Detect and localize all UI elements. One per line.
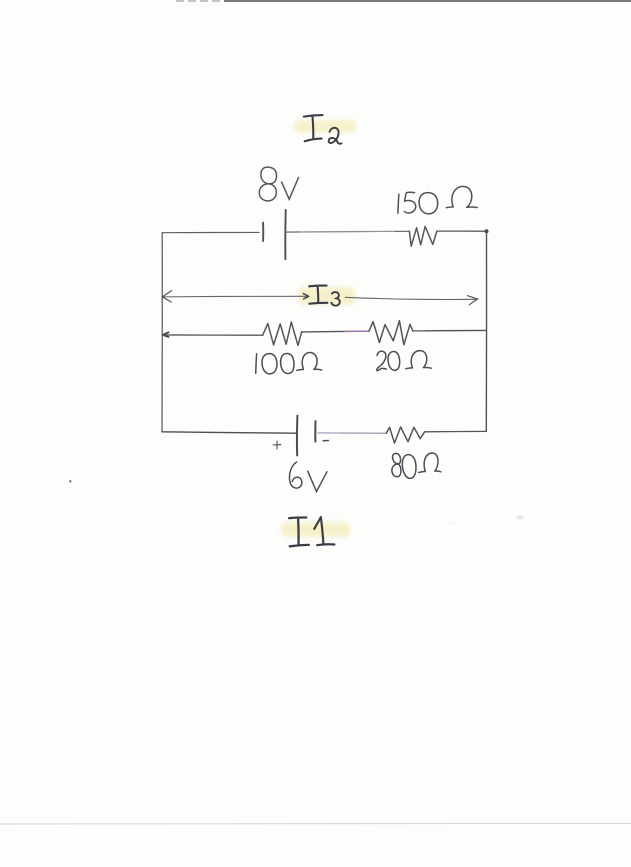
minus sign (323, 440, 328, 442)
left vertical wire (161, 233, 163, 432)
highlighter mark behind I1 (281, 522, 350, 537)
resistor R2 100ohm zigzag (263, 322, 302, 345)
bottom wire right segment to corner (425, 430, 487, 432)
resistor R3 20ohm zigzag (369, 321, 413, 345)
label 20 ohm (377, 351, 432, 371)
faint scan separator line bottom (0, 822, 631, 825)
wire R2 to R3 (302, 330, 369, 333)
bottom wire left segment (162, 432, 296, 433)
slight magenta tint right of R3 (414, 330, 426, 332)
battery B1 8V long plate (284, 210, 286, 259)
right vertical wire (485, 231, 487, 431)
resistor R1 150ohm zigzag (409, 226, 437, 246)
current arrow I3 left segment (162, 295, 308, 298)
label I2 (304, 115, 323, 141)
highlighter mark behind I3 (298, 287, 355, 305)
current arrow I3 right segment (345, 297, 476, 299)
paper speck left (69, 480, 72, 483)
junction dot top-right corner (485, 229, 489, 233)
scan edge dark line top (176, 0, 631, 2)
label I3 (309, 286, 327, 304)
highlighter mark behind I2 (294, 120, 356, 133)
label I1 digit 1 (314, 517, 334, 545)
top wire left segment (162, 231, 259, 233)
bottom wire right of battery (faint purple) (318, 432, 387, 434)
top wire right segment (286, 230, 409, 233)
small mid arrowhead before label (points right) (303, 294, 308, 299)
battery B2 6V short plate (314, 421, 316, 442)
label 8V (259, 167, 298, 201)
arrowhead left (points left) (162, 291, 171, 302)
pink scan tint on top wire (300, 230, 395, 233)
arrowhead right (points right) (467, 296, 477, 305)
label 100 ohm (256, 352, 322, 373)
middle resistor line: left stub with small arrowhead at left wire (163, 332, 169, 337)
wire to R2 (163, 334, 263, 336)
resistor R4 80ohm zigzag (386, 427, 424, 443)
top wire to right corner (437, 230, 487, 232)
label I2 subscript 2 (329, 128, 342, 144)
battery B2 6V long plate (296, 416, 298, 456)
faint smudge right (448, 516, 524, 525)
plus sign (273, 441, 281, 449)
label 80 ohm (392, 453, 441, 478)
label 6V (289, 462, 326, 492)
battery B1 8V short plate (262, 223, 264, 242)
magenta scan tint segment (345, 330, 370, 332)
wire R3 to right wire (413, 329, 487, 332)
label I3 subscript 3 (331, 292, 339, 306)
label 150 ohm (398, 186, 477, 213)
label I1 (289, 517, 309, 546)
